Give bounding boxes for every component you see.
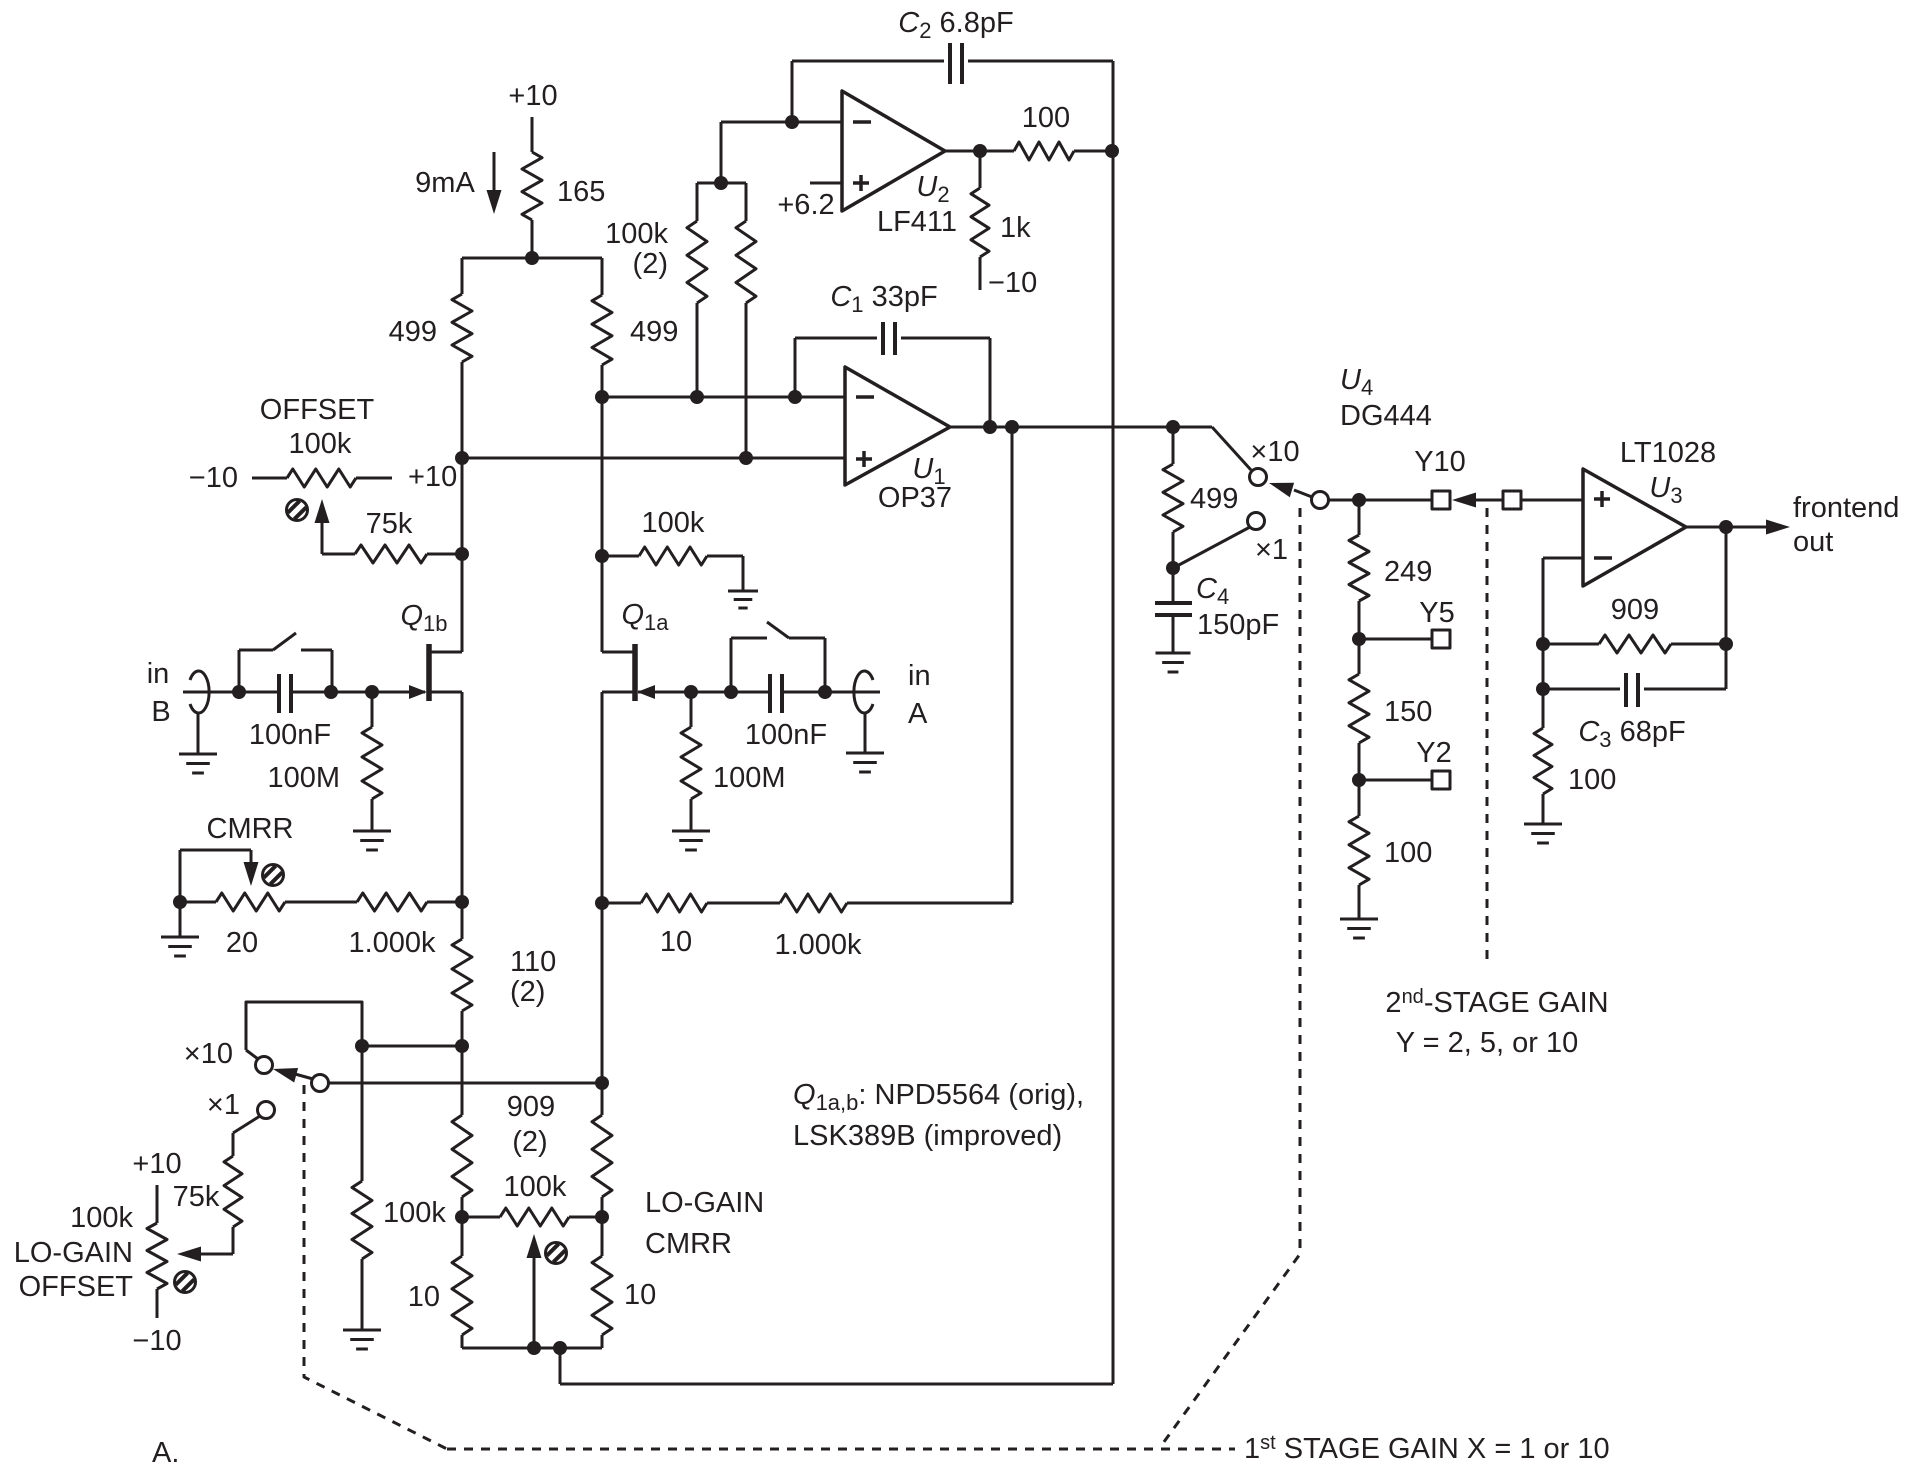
ground C4: [1156, 653, 1191, 672]
svg-text:LT1028: LT1028: [1620, 437, 1716, 469]
wire x10 loop: [246, 1002, 362, 1050]
svg-text:100k: 100k: [70, 1202, 133, 1234]
node pot row left junction: [455, 1210, 469, 1224]
svg-text:(2): (2): [633, 248, 668, 280]
resistor 165: [522, 152, 542, 258]
node feedback junction: [1005, 420, 1019, 434]
label 249: [1384, 556, 1432, 588]
connector in A: [854, 671, 873, 713]
label OFFSET: [260, 394, 375, 426]
op-amp U3: [1583, 469, 1686, 586]
node switch-left junction A: [724, 685, 738, 699]
label 150pF: [1197, 609, 1279, 641]
label 165: [557, 176, 605, 208]
resistor 1.000k right: [780, 894, 1012, 912]
label C1 33pF: [830, 281, 937, 317]
node 100k bias junction: [595, 549, 609, 563]
label 909 fb: [1611, 594, 1659, 626]
node U1 out to switch junction: [1166, 420, 1180, 434]
svg-text:+6.2: +6.2: [777, 189, 834, 221]
label Y values: [1396, 1027, 1578, 1059]
svg-text:100k: 100k: [642, 507, 705, 539]
label in A: [908, 660, 931, 730]
svg-text:OFFSET: OFFSET: [19, 1271, 134, 1303]
potentiometer LO-GAIN OFFSET 100k: [147, 1185, 167, 1318]
label 909 (2): [507, 1091, 555, 1158]
svg-text:100: 100: [1022, 102, 1070, 134]
node wiper bottom junction: [527, 1341, 541, 1355]
svg-text:100k: 100k: [605, 218, 668, 250]
label Y2: [1416, 737, 1451, 769]
resistor 100 ladder: [1349, 780, 1369, 918]
pot wiper arrow: [315, 499, 330, 554]
svg-text:499: 499: [630, 316, 678, 348]
wire x10 contact stub: [246, 1050, 258, 1059]
resistor 1.000k left: [357, 893, 462, 911]
wire Q1a drain column: [601, 365, 604, 652]
svg-text:100k: 100k: [504, 1171, 567, 1203]
ground CMRR: [161, 937, 199, 956]
svg-text:in: in: [908, 660, 931, 692]
node 909 right junction: [1719, 637, 1733, 651]
node minus-C1 junction: [788, 390, 802, 404]
resistor 100k (2) left: [687, 183, 707, 397]
svg-text:LF411: LF411: [877, 206, 957, 238]
label x1 u4: [1255, 534, 1288, 566]
resistor 909 left: [452, 1046, 472, 1217]
label Y10: [1414, 446, 1466, 478]
resistor 10 left: [452, 1217, 472, 1348]
label 1.000k right: [774, 929, 862, 961]
svg-text:C3 68pF: C3 68pF: [1578, 716, 1685, 752]
square Y10: [1432, 491, 1450, 509]
label x10 u4: [1250, 436, 1299, 468]
label 75k logain: [173, 1181, 220, 1213]
wire x1 blade u4: [1177, 527, 1250, 566]
resistor 75k logain: [224, 1156, 242, 1254]
resistor 100M A: [681, 692, 701, 830]
U2 plus symbol: [853, 175, 869, 191]
label 100k logain offset: [70, 1202, 133, 1234]
label 499 u4: [1190, 483, 1238, 515]
dashed control line 1st stage left: [304, 1085, 447, 1449]
wire to x10 blade: [1173, 427, 1251, 470]
wire wiper to 75k: [322, 553, 355, 556]
ground 100k middle: [343, 1330, 381, 1349]
svg-text:OFFSET: OFFSET: [260, 394, 375, 426]
label 499 right: [630, 316, 678, 348]
node guard bottom junction: [553, 1341, 567, 1355]
resistor 909 fb: [1543, 635, 1726, 653]
label U4: [1340, 364, 1373, 400]
svg-text:100M: 100M: [267, 762, 340, 794]
op-amp U2: [842, 91, 945, 211]
label 100k logain cmrr: [504, 1171, 567, 1203]
label 100k bias: [642, 507, 705, 539]
wire U2 plus stub +6.2: [810, 182, 842, 185]
square U4 in: [1503, 491, 1521, 509]
node plus-100k junction: [739, 451, 753, 465]
svg-text:1.000k: 1.000k: [348, 927, 436, 959]
svg-text:100nF: 100nF: [249, 719, 331, 751]
label 100M A: [713, 762, 786, 794]
capacitor C4 150pF: [1155, 568, 1192, 652]
current arrow 9mA: [487, 152, 502, 214]
svg-text:frontend: frontend: [1793, 492, 1899, 524]
svg-text:Y5: Y5: [1419, 597, 1454, 629]
svg-text:150: 150: [1384, 696, 1432, 728]
svg-text:A: A: [908, 698, 928, 730]
node C1 out junction: [983, 420, 997, 434]
wire Q1b drain column: [461, 362, 464, 652]
svg-text:×1: ×1: [1255, 534, 1288, 566]
resistor 75k: [355, 545, 462, 563]
svg-text:A.: A.: [152, 1437, 179, 1463]
label 100M B: [267, 762, 340, 794]
label 100nF A: [745, 719, 827, 751]
op-amp U1: [845, 367, 950, 485]
svg-text:C1 33pF: C1 33pF: [830, 281, 937, 317]
svg-text:−10: −10: [988, 267, 1037, 299]
resistor 150: [1349, 639, 1369, 780]
svg-text:100: 100: [1384, 837, 1432, 869]
label frontend out: [1793, 492, 1899, 558]
svg-text:+10: +10: [132, 1148, 181, 1180]
label 100 u3: [1568, 764, 1616, 796]
wire Q1b source column: [461, 692, 464, 902]
label 110 (2): [510, 946, 556, 1008]
svg-text:CMRR: CMRR: [207, 813, 294, 845]
label CMRR: [207, 813, 294, 845]
svg-text:DG444: DG444: [1340, 400, 1432, 432]
ground 100 u3: [1524, 824, 1562, 843]
switch wiper contact left: [312, 1075, 329, 1092]
node x10 loop junction: [355, 1039, 369, 1053]
label 100 ladder: [1384, 837, 1432, 869]
label C2 6.8pF: [898, 7, 1013, 43]
label 75k: [366, 508, 413, 540]
svg-text:165: 165: [557, 176, 605, 208]
svg-text:100nF: 100nF: [745, 719, 827, 751]
switch contact x1 left: [258, 1102, 275, 1119]
wire U3 output: [1686, 526, 1768, 529]
node CMRR ground junction: [173, 895, 187, 909]
wire Y2 tap: [1359, 779, 1432, 782]
svg-text:LO-GAIN: LO-GAIN: [645, 1187, 764, 1219]
arrow frontend out: [1766, 520, 1790, 535]
screw logain cmrr: [546, 1243, 567, 1264]
wire guard rail bottom: [560, 1383, 1113, 1386]
label U1: [912, 453, 945, 489]
svg-text:×10: ×10: [184, 1038, 233, 1070]
node drain-offset junction: [455, 451, 469, 465]
label CMRR logain: [645, 1228, 732, 1260]
label LO-GAIN: [14, 1237, 133, 1269]
resistor 909 right: [592, 903, 612, 1217]
node C4 junction: [1166, 561, 1180, 575]
label 2nd stage gain: [1385, 986, 1608, 1019]
node switch-right junction A: [818, 685, 832, 699]
wire: [531, 117, 534, 152]
svg-text:10: 10: [660, 926, 692, 958]
node C3 left junction: [1536, 682, 1550, 696]
switch contact x1 u4: [1248, 513, 1265, 530]
label 100k (2): [605, 218, 668, 280]
svg-text:B: B: [151, 696, 170, 728]
potentiometer CMRR 20: [180, 893, 357, 911]
svg-text:CMRR: CMRR: [645, 1228, 732, 1260]
switch contact x10 u4: [1250, 469, 1267, 486]
capacitor 100nF B: [279, 674, 291, 713]
svg-text:(2): (2): [510, 976, 545, 1008]
wire wiper to ladder: [1328, 499, 1432, 502]
svg-text:75k: 75k: [173, 1181, 220, 1213]
wire U3 minus leg: [1543, 558, 1583, 689]
wire C1 right leg: [989, 338, 992, 427]
node ladder top junction: [1352, 493, 1366, 507]
U3 plus symbol: [1594, 491, 1610, 507]
resistor 100k (2) right: [736, 183, 756, 458]
switch wiper contact u4: [1312, 492, 1329, 509]
label Y5: [1419, 597, 1454, 629]
node U2 out junction: [973, 144, 987, 158]
node 110 bottom junction: [455, 1039, 469, 1053]
screw CMRR: [263, 865, 284, 886]
svg-text:150pF: 150pF: [1197, 609, 1279, 641]
label LT1028: [1620, 437, 1716, 469]
label 1st stage gain: [1244, 1432, 1610, 1465]
node minus-100k junction: [690, 390, 704, 404]
node pot row right junction: [595, 1210, 609, 1224]
node 100M junction A: [684, 685, 698, 699]
svg-text:1st STAGE GAIN X = 1 or 10: 1st STAGE GAIN X = 1 or 10: [1244, 1432, 1610, 1463]
svg-text:75k: 75k: [366, 508, 413, 540]
svg-text:909: 909: [507, 1091, 555, 1123]
wire wiper row: [328, 1082, 602, 1085]
capacitor C3 68pF: [1543, 673, 1726, 707]
wire C2 left leg: [791, 61, 794, 122]
ground ladder: [1340, 919, 1378, 938]
U3 minus symbol: [1594, 556, 1612, 560]
transistor Q1a: [602, 644, 691, 701]
svg-text:LO-GAIN: LO-GAIN: [14, 1237, 133, 1269]
svg-text:1k: 1k: [1000, 212, 1031, 244]
wire U1 minus input: [602, 396, 845, 399]
svg-text:10: 10: [624, 1279, 656, 1311]
node wiper-right junction: [595, 1076, 609, 1090]
node switch-left junction: [232, 685, 246, 699]
ground in B: [179, 713, 217, 773]
label 10 right: [624, 1279, 656, 1311]
capacitor C1 33pF: [795, 322, 990, 355]
square Y2: [1432, 771, 1450, 789]
switch A: [731, 622, 825, 692]
node junction: [525, 251, 539, 265]
screw logain offset: [175, 1272, 196, 1293]
svg-text:10: 10: [408, 1281, 440, 1313]
resistor 100k middle: [352, 1046, 372, 1329]
node cap right junction: [324, 685, 338, 699]
wire bottom row: [462, 1347, 602, 1350]
wire x1 leg: [233, 1116, 260, 1156]
wire input A row: [638, 691, 880, 694]
wire square to U3: [1521, 499, 1583, 502]
node 100k pair junction: [714, 176, 728, 190]
resistor 499 u4: [1163, 427, 1183, 568]
resistor 110 (2): [452, 902, 472, 1046]
label U3: [1649, 472, 1682, 508]
svg-text:100M: 100M: [713, 762, 786, 794]
label 10 fb: [660, 926, 692, 958]
node source junction B: [455, 895, 469, 909]
node Y5 junction: [1352, 632, 1366, 646]
svg-text:OP37: OP37: [878, 482, 952, 514]
wire guard rail right: [1112, 61, 1115, 1384]
label +10: [408, 461, 457, 493]
label 1k: [1000, 212, 1031, 244]
label OFFSET logain: [19, 1271, 134, 1303]
resistor 249: [1349, 500, 1369, 639]
screw adjust symbol: [287, 500, 308, 521]
dashed control line 1st stage bottom: [447, 1448, 1235, 1451]
wire U1 plus input: [462, 457, 845, 460]
U1 plus symbol: [856, 451, 872, 467]
dashed control line 2nd stage: [1486, 508, 1489, 963]
label +6.2: [777, 189, 834, 221]
svg-text:1.000k: 1.000k: [774, 929, 862, 961]
label 1.000k left: [348, 927, 436, 959]
svg-text:9mA: 9mA: [415, 167, 475, 199]
arrow into Y10: [1452, 493, 1503, 508]
label 9mA: [415, 167, 475, 199]
switch B: [239, 633, 332, 692]
svg-text:×1: ×1: [207, 1089, 240, 1121]
label Q1b: [400, 600, 447, 636]
wire input B row: [183, 691, 425, 694]
label Q1a: [621, 599, 669, 635]
svg-text:(2): (2): [512, 1126, 547, 1158]
label A.: [152, 1437, 179, 1468]
svg-text:Y10: Y10: [1414, 446, 1466, 478]
pot wiper logain cmrr: [527, 1234, 542, 1348]
svg-text:110: 110: [510, 946, 556, 978]
svg-text:499: 499: [389, 316, 437, 348]
node U3 out junction: [1719, 520, 1733, 534]
label x1 left: [207, 1089, 240, 1121]
svg-text:20: 20: [226, 927, 258, 959]
label in B: [147, 658, 171, 728]
resistor 10 right: [592, 1217, 612, 1348]
node +10 supply label: [508, 80, 557, 112]
svg-text:−10: −10: [132, 1325, 181, 1357]
wire U2 output: [945, 150, 1014, 153]
svg-text:out: out: [1793, 526, 1833, 558]
wire: [601, 258, 604, 295]
resistor 499 left: [452, 294, 472, 362]
transistor Q1b: [372, 644, 462, 701]
resistor 100 u3: [1534, 689, 1552, 823]
square Y5: [1432, 630, 1450, 648]
wire guard rail left drop: [559, 1348, 562, 1384]
capacitor C2 6.8pF: [792, 43, 1113, 84]
dashed control line 1st stage right: [1161, 508, 1300, 1446]
svg-text:Y2: Y2: [1416, 737, 1451, 769]
connector in B: [190, 671, 209, 713]
node source junction A: [595, 896, 609, 910]
svg-text:100k: 100k: [383, 1197, 446, 1229]
label LF411: [877, 206, 957, 238]
label C3 68pF: [1578, 716, 1685, 752]
node 75k junction: [455, 547, 469, 561]
label DG444: [1340, 400, 1432, 432]
wire 100k pair top bar: [697, 182, 746, 185]
label -10 u2: [988, 267, 1037, 299]
node Y2 junction: [1352, 773, 1366, 787]
label 100k offset pot: [289, 428, 352, 460]
label 100 u2: [1022, 102, 1070, 134]
label x10 left: [184, 1038, 233, 1070]
label 10 left: [408, 1281, 440, 1313]
resistor 100k bias: [602, 547, 743, 590]
U2 minus symbol: [853, 120, 871, 124]
svg-text:+10: +10: [408, 461, 457, 493]
label 100nF B: [249, 719, 331, 751]
label C4: [1196, 573, 1229, 609]
node rail top junction: [1105, 144, 1119, 158]
svg-text:499: 499: [1190, 483, 1238, 515]
svg-text:−10: −10: [189, 462, 238, 494]
label 499 left: [389, 316, 437, 348]
label U2: [916, 171, 949, 207]
resistor 100 u2: [1014, 142, 1113, 160]
switch wiper arrow left: [273, 1068, 313, 1083]
potentiometer LO-GAIN CMRR 100k: [462, 1208, 602, 1226]
svg-text:100: 100: [1568, 764, 1616, 796]
U1 minus symbol: [856, 395, 874, 399]
svg-text:Y = 2, 5, or 10: Y = 2, 5, or 10: [1396, 1027, 1578, 1059]
wire 100k pair top leg: [720, 122, 723, 183]
wire CMRR ground leg: [179, 902, 182, 936]
resistor 1k: [971, 151, 989, 290]
node C2 junction: [785, 115, 799, 129]
svg-text:249: 249: [1384, 556, 1432, 588]
label 20: [226, 927, 258, 959]
resistor 100M B: [362, 692, 382, 830]
svg-text:+10: +10: [508, 80, 557, 112]
svg-text:100k: 100k: [289, 428, 352, 460]
capacitor 100nF A: [770, 674, 782, 713]
ground 100M B: [353, 831, 391, 850]
wire U2 minus input: [721, 121, 842, 124]
potentiometer OFFSET 100k: [252, 469, 392, 487]
wire U3 out drop: [1725, 527, 1728, 689]
node 100M junction B: [365, 685, 379, 699]
wire: [461, 258, 464, 294]
note Q1ab types: [793, 1079, 1084, 1152]
label +10 logain: [132, 1148, 181, 1180]
ground 100k bias: [728, 591, 758, 608]
wire 75k to pot wiper: [177, 1247, 233, 1262]
svg-text:LSK389B (improved): LSK389B (improved): [793, 1120, 1062, 1152]
wire feedback drop: [1011, 427, 1014, 903]
wire x10 row: [362, 1045, 462, 1048]
node 909 left junction: [1536, 637, 1550, 651]
label 150: [1384, 696, 1432, 728]
svg-text:×10: ×10: [1250, 436, 1299, 468]
resistor 499 right: [592, 295, 612, 365]
switch wiper arrow u4: [1269, 483, 1312, 497]
resistor 10 fb: [602, 894, 780, 912]
